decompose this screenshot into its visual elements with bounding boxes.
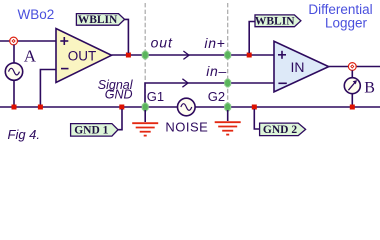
wire: left input net to OUT + xyxy=(0,40,57,42)
boundary dashed line (right, G2 plane) xyxy=(227,3,229,106)
wire: IN output net to right edge xyxy=(329,66,380,68)
svg-text:Differential: Differential xyxy=(308,2,372,17)
svg-text:WBLIN: WBLIN xyxy=(255,16,295,28)
svg-text:GND 2: GND 2 xyxy=(263,124,297,136)
svg-text:B: B xyxy=(364,79,375,96)
svg-text:in+: in+ xyxy=(204,35,225,51)
ground bus wire (right of noise source) xyxy=(195,106,380,108)
node green: G2 xyxy=(225,103,231,111)
svg-text:G2: G2 xyxy=(208,89,225,104)
svg-text:A: A xyxy=(24,47,37,66)
wire: terminal A down to source A xyxy=(13,45,15,63)
ground bus wire (left of noise source) xyxy=(0,106,178,108)
ground symbol 1 xyxy=(132,110,158,136)
boundary dashed line (left, G1 plane) xyxy=(144,3,146,106)
ground symbol 2 xyxy=(215,110,241,135)
svg-text:GND: GND xyxy=(105,87,133,101)
terminal B (output jack) xyxy=(348,63,356,71)
terminal A (input jack) xyxy=(10,37,18,45)
svg-text:in–: in– xyxy=(206,63,227,79)
noise source (sine generator in bus) xyxy=(178,98,196,116)
junction red square (OUT inverting to bus) xyxy=(38,105,43,110)
junction red square (WBLIN right tap) xyxy=(247,53,252,58)
junction red square (GND 1 tap) xyxy=(119,105,124,110)
arrow on out wire xyxy=(183,51,189,59)
wire: out net (OUT output to IN +) xyxy=(112,54,275,56)
source A (sine generator) xyxy=(5,63,22,80)
flag WBLIN right xyxy=(249,15,301,53)
svg-text:G1: G1 xyxy=(147,89,164,104)
meter B xyxy=(344,70,360,107)
svg-text:Fig 4.: Fig 4. xyxy=(8,127,41,142)
junction red square (source A to bus) xyxy=(12,105,17,110)
svg-text:OUT: OUT xyxy=(68,49,97,64)
arrow on in- wire xyxy=(182,79,188,87)
flag WBLIN left xyxy=(76,14,128,53)
node green: G1 xyxy=(142,103,148,111)
junction red square (meter B to bus) xyxy=(350,105,355,110)
svg-text:WBo2: WBo2 xyxy=(18,7,55,22)
svg-text:IN: IN xyxy=(291,59,305,75)
flag GND 1 xyxy=(71,109,122,137)
op-amp OUT xyxy=(56,29,112,83)
junction red square (WBLIN left tap) xyxy=(126,53,131,58)
node green: out at boundary 1 xyxy=(142,51,148,59)
node green: in- at boundary 2 xyxy=(225,79,231,87)
svg-text:WBLIN: WBLIN xyxy=(78,14,118,26)
svg-text:NOISE: NOISE xyxy=(165,119,208,134)
wire: in- net (G1 up and right to IN -) xyxy=(145,83,275,107)
svg-text:Logger: Logger xyxy=(325,16,368,31)
node green: in+ at boundary 2 xyxy=(225,51,231,59)
junction red square (GND 2 tap) xyxy=(252,105,257,110)
flag GND 2 xyxy=(254,109,305,136)
wire: source A down to ground bus xyxy=(13,80,15,107)
wire: OUT inverting input to ground bus xyxy=(40,70,56,108)
svg-text:out: out xyxy=(151,34,173,50)
svg-text:GND 1: GND 1 xyxy=(74,125,108,137)
op-amp IN xyxy=(274,41,329,92)
